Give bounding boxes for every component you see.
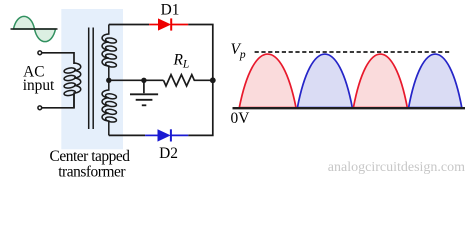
AC source sine symbol xyxy=(11,16,58,41)
svg-text:D2: D2 xyxy=(159,145,178,162)
wire secondary top to D1 anode xyxy=(109,24,149,26)
terminal bottom xyxy=(38,106,42,110)
svg-text:RL: RL xyxy=(173,52,190,71)
transformer core xyxy=(88,28,90,130)
ground junction dot xyxy=(141,78,146,83)
bus junction dot xyxy=(210,77,216,83)
secondary coil upper half xyxy=(102,25,117,81)
terminal top xyxy=(38,51,42,55)
svg-text:Center tapped: Center tapped xyxy=(50,148,131,165)
svg-text:Vp: Vp xyxy=(231,41,246,61)
waveform baseline 0V axis xyxy=(233,107,466,109)
center tap wire xyxy=(109,79,164,81)
waveform hump 2 (blue) xyxy=(297,54,352,108)
secondary coil lower half xyxy=(102,80,117,135)
waveform hump 1 (red) xyxy=(239,54,296,108)
svg-text:0V: 0V xyxy=(231,110,250,127)
center tap junction dot xyxy=(106,78,111,83)
ground xyxy=(130,80,158,105)
primary coil xyxy=(64,63,81,108)
svg-text:transformer: transformer xyxy=(58,164,125,181)
diode D2 xyxy=(158,130,170,141)
transformer shading background xyxy=(61,9,123,149)
diode D2 blue leads xyxy=(145,134,158,136)
waveform hump 4 (blue) xyxy=(409,54,462,108)
Vp peak dashed line xyxy=(255,51,450,53)
diode D1 xyxy=(159,19,171,30)
svg-text:input: input xyxy=(23,77,55,94)
wire bottom-left xyxy=(42,94,74,108)
waveform hump 3 (red) xyxy=(353,54,407,108)
resistor RL xyxy=(164,75,213,86)
wire D1 cathode to bus xyxy=(188,25,213,136)
wire secondary bottom to D2 anode xyxy=(109,134,145,136)
svg-text:D1: D1 xyxy=(161,2,180,19)
diode D1 red leads xyxy=(149,24,158,26)
wire top-left xyxy=(42,53,74,64)
svg-text:analogcircuitdesign.com: analogcircuitdesign.com xyxy=(328,160,465,175)
